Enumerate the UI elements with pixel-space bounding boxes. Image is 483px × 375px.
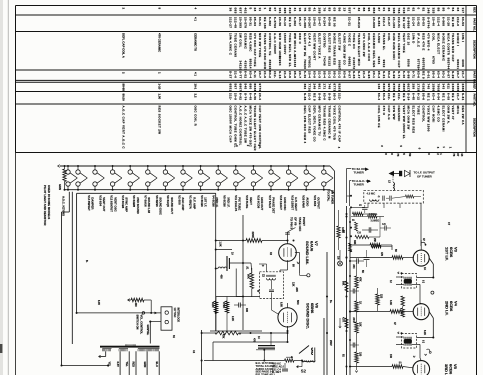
svg-text:CAP A.G: CAP A.G <box>387 106 391 121</box>
svg-text:20-9: 20-9 <box>288 71 292 78</box>
svg-text:95-2: 95-2 <box>377 71 381 78</box>
svg-text:A.G.C A.G.C TUBE 2W: A.G.C A.G.C TUBE 2W <box>243 106 247 144</box>
svg-text:20-47: 20-47 <box>318 17 322 26</box>
svg-text:650752: 650752 <box>422 58 426 70</box>
svg-text:V10 6S4: V10 6S4 <box>98 195 102 206</box>
svg-text:YOKE CO: YOKE CO <box>352 33 356 49</box>
svg-text:56: 56 <box>337 8 341 12</box>
pilot light resistor <box>63 165 66 191</box>
svg-text:20-56: 20-56 <box>278 17 282 26</box>
svg-text:2ND SOUND: 2ND SOUND <box>136 197 140 213</box>
svg-text:951343: 951343 <box>293 56 297 68</box>
svg-text:248: 248 <box>313 84 317 90</box>
svg-text:95: 95 <box>441 8 445 12</box>
component value labels <box>85 222 450 359</box>
interstage resistors <box>376 288 405 317</box>
svg-text:S-353: S-353 <box>377 17 381 27</box>
svg-text:4.5MC CO: 4.5MC CO <box>436 106 440 123</box>
svg-text:RE 9: RE 9 <box>451 93 455 101</box>
svg-text:1ST I.F.: 1ST I.F. <box>444 247 449 261</box>
svg-text:3.9MEG: 3.9MEG <box>371 220 380 223</box>
svg-text:16: 16 <box>298 8 302 12</box>
svg-text:V3 6CB6: V3 6CB6 <box>200 195 204 207</box>
svg-text:63-31: 63-31 <box>258 17 262 26</box>
svg-text:58122: 58122 <box>328 56 332 66</box>
bus decoupling extras <box>327 243 359 375</box>
svg-text:310: 310 <box>288 8 292 14</box>
wire to V7 grid <box>242 240 288 242</box>
on-off switch and choke <box>297 346 316 374</box>
svg-text:ELECT RES RES: ELECT RES RES <box>412 106 416 134</box>
svg-text:75: 75 <box>303 8 307 12</box>
svg-text:6-09: 6-09 <box>446 93 450 100</box>
svg-text:95-17: 95-17 <box>298 17 302 26</box>
V8 input network <box>210 297 262 335</box>
svg-text:TRANS CERAMIC M: TRANS CERAMIC M <box>328 106 332 139</box>
svg-text:SOUND DISC.: SOUND DISC. <box>305 303 310 329</box>
svg-text:470: 470 <box>380 252 383 257</box>
svg-text:CAP HORI: CAP HORI <box>432 106 436 123</box>
svg-text:TRANS RES 4.5MC C: TRANS RES 4.5MC C <box>323 106 327 142</box>
svg-text:98941: 98941 <box>456 59 460 69</box>
svg-text:YOKE COIL 470 TUB: YOKE COIL 470 TUB <box>332 106 336 141</box>
note: pilot light used in some models <box>43 185 51 226</box>
svg-text:RED: RED <box>132 362 136 368</box>
svg-text:13: 13 <box>342 8 346 12</box>
svg-text:3.3K: 3.3K <box>389 300 392 305</box>
svg-text:TAKE OFF: TAKE OFF <box>298 217 302 231</box>
svg-text:PART NO.: PART NO. <box>473 71 477 84</box>
svg-text:330: 330 <box>245 308 248 313</box>
svg-text:21-3: 21-3 <box>308 93 312 100</box>
svg-text:212-: 212- <box>273 71 277 78</box>
svg-text:ELECT 2W DE: ELECT 2W DE <box>303 33 307 57</box>
svg-text:20-40: 20-40 <box>432 17 436 26</box>
svg-text:CONTROL VE: CONTROL VE <box>268 33 272 56</box>
svg-text:OF V9: OF V9 <box>294 217 298 226</box>
svg-text:V12 6SN7GT: V12 6SN7GT <box>110 195 114 212</box>
svg-text:21-9: 21-9 <box>263 71 267 78</box>
wire detector return <box>323 318 325 375</box>
svg-text:PART NO.: PART NO. <box>473 94 477 107</box>
schematic section border <box>77 193 216 313</box>
AGC filter network <box>347 195 392 267</box>
svg-text:95-3: 95-3 <box>332 93 336 100</box>
svg-text:V2 6U8: V2 6U8 <box>177 195 181 205</box>
svg-text:87: 87 <box>377 8 381 12</box>
svg-text:MFD CERAMIC TU: MFD CERAMIC TU <box>318 106 322 137</box>
svg-text:2W COIL: 2W COIL <box>238 33 242 48</box>
svg-text:DAMPER: DAMPER <box>91 197 95 209</box>
screen resistor 2W <box>350 238 392 250</box>
svg-text:21-0: 21-0 <box>233 71 237 78</box>
svg-text:SYNC AMP: SYNC AMP <box>125 197 129 212</box>
svg-text:21-21: 21-21 <box>347 17 351 26</box>
svg-text:V1 6BQ7A: V1 6BQ7A <box>189 195 193 209</box>
svg-text:YEL: YEL <box>125 362 129 367</box>
svg-text:VOL. CONTROL: VOL. CONTROL <box>140 315 144 335</box>
svg-text:V15 5U4G: V15 5U4G <box>245 195 249 208</box>
svg-text:HOR OSC: HOR OSC <box>283 197 287 210</box>
svg-text:283: 283 <box>318 8 322 14</box>
B+ bus wires <box>346 206 352 375</box>
svg-text:26: 26 <box>387 8 391 12</box>
svg-text:50C: 50C <box>296 300 300 305</box>
svg-text:DESCRIPTION: DESCRIPTION <box>473 118 477 137</box>
quadrature coil Z2 <box>260 272 284 299</box>
svg-text:11: 11 <box>258 8 262 12</box>
svg-text:75: 75 <box>396 153 400 157</box>
svg-text:20-9: 20-9 <box>233 93 237 100</box>
svg-text:V18 12AU7: V18 12AU7 <box>279 195 283 210</box>
svg-text:400: 400 <box>219 275 222 280</box>
svg-text:20-7: 20-7 <box>298 71 302 78</box>
svg-text:20-4: 20-4 <box>258 93 262 100</box>
svg-text:VERT WW 1500V EL: VERT WW 1500V EL <box>402 106 406 140</box>
svg-text:TUBE: TUBE <box>417 106 421 115</box>
resistor 220K <box>246 232 262 243</box>
svg-text:21-2: 21-2 <box>337 71 341 78</box>
svg-text:63-10: 63-10 <box>283 17 287 26</box>
svg-text:V7 6AU6: V7 6AU6 <box>144 195 148 207</box>
svg-text:ELECT 2W: ELECT 2W <box>337 33 341 51</box>
svg-text:5: 5 <box>248 8 252 10</box>
tube V8 sound discriminator <box>272 299 320 330</box>
svg-text:95-93: 95-93 <box>253 17 257 26</box>
svg-text:A.G.C. KEYING: A.G.C. KEYING <box>62 196 66 216</box>
svg-text:6.3V: 6.3V <box>97 300 100 305</box>
svg-text:1: 1 <box>263 8 267 10</box>
svg-text:V21 6K6: V21 6K6 <box>313 195 317 206</box>
svg-text:CAP VERT 10% CONTROL: CAP VERT 10% CONTROL <box>258 106 262 150</box>
svg-text:1K: 1K <box>359 301 362 304</box>
svg-text:VERT OUT: VERT OUT <box>102 197 106 211</box>
svg-text:016272: 016272 <box>352 57 356 69</box>
svg-text:4008: 4008 <box>461 59 465 67</box>
svg-text:20-7: 20-7 <box>258 71 262 78</box>
svg-text:3RD I.F.: 3RD I.F. <box>444 364 449 375</box>
svg-text:4.5 MC: 4.5 MC <box>367 192 376 196</box>
svg-text:4 1: 4 1 <box>194 72 198 76</box>
grid resistor V4 <box>350 310 413 314</box>
svg-text:9972: 9972 <box>387 84 391 92</box>
svg-text:DEFL DEFL YOKE CO: DEFL DEFL YOKE CO <box>313 106 317 143</box>
svg-text:10% WW: 10% WW <box>392 106 396 120</box>
svg-text:MFD 2W YOKE: MFD 2W YOKE <box>258 33 262 58</box>
svg-text:V8 6BN6: V8 6BN6 <box>155 195 159 207</box>
svg-text:MICA ELECT: MICA ELECT <box>436 33 440 54</box>
svg-text:21-8: 21-8 <box>283 71 287 78</box>
svg-text:63-2: 63-2 <box>441 71 445 78</box>
svg-text:4.7K: 4.7K <box>342 317 345 322</box>
svg-text:10-1: 10-1 <box>194 84 198 90</box>
svg-text:20-383: 20-383 <box>238 17 242 28</box>
heater bus wires <box>58 165 335 194</box>
svg-text:SOUND LIM.: SOUND LIM. <box>305 241 310 265</box>
svg-text:INTERLOCK: INTERLOCK <box>176 308 179 323</box>
svg-text:10% 4.5MC C: 10% 4.5MC C <box>229 33 233 56</box>
svg-text:RE 9: RE 9 <box>313 93 317 101</box>
svg-text:RE 183: RE 183 <box>263 17 267 29</box>
svg-text:95-267: 95-267 <box>308 17 312 28</box>
svg-text:GRN: GRN <box>143 362 147 368</box>
svg-text:51: 51 <box>407 8 411 12</box>
svg-text:IF A.G.C: IF A.G.C <box>417 33 421 48</box>
svg-text:YEL: YEL <box>108 362 112 367</box>
svg-text:20-4: 20-4 <box>308 71 312 78</box>
svg-text:223: 223 <box>380 294 383 299</box>
svg-text:4.7MEG: 4.7MEG <box>369 213 378 216</box>
svg-text:54: 54 <box>451 8 455 12</box>
svg-text:250V: 250V <box>329 340 332 346</box>
svg-text:COIL: COIL <box>387 33 391 41</box>
svg-text:S-27: S-27 <box>229 71 233 79</box>
svg-text:21-28: 21-28 <box>446 17 450 26</box>
svg-text:117: 117 <box>461 8 465 14</box>
tube designation labels <box>87 195 321 215</box>
svg-text:083: 083 <box>233 8 237 14</box>
svg-text:6-46: 6-46 <box>402 71 406 78</box>
svg-text:RE 13: RE 13 <box>288 17 292 27</box>
svg-text:482: 482 <box>303 84 307 90</box>
svg-text:WW MICA A.G: WW MICA A.G <box>293 33 297 57</box>
grid resistor V5 <box>350 365 413 369</box>
svg-text:20-02: 20-02 <box>313 17 317 26</box>
svg-text:95-8: 95-8 <box>293 71 297 78</box>
svg-text:6-92: 6-92 <box>238 93 242 100</box>
svg-text:4 1: 4 1 <box>194 17 198 21</box>
svg-text:PART NO.: PART NO. <box>473 18 477 31</box>
svg-text:1718: 1718 <box>417 84 421 92</box>
svg-text:CONTROL 470 IF CAP: CONTROL 470 IF CAP <box>337 106 341 143</box>
svg-text:6627: 6627 <box>407 84 411 92</box>
svg-text:HORIZ I: HORIZ I <box>456 33 460 46</box>
svg-text:6807: 6807 <box>238 84 242 92</box>
svg-text:8755: 8755 <box>392 84 396 92</box>
svg-text:117 VAC: 117 VAC <box>173 308 176 318</box>
svg-text:HORIZ CERAMIC: HORIZ CERAMIC <box>441 33 445 62</box>
heater string tube filaments <box>66 165 333 191</box>
wire audio bus <box>201 330 203 375</box>
svg-text:ELECT RES: ELECT RES <box>328 33 332 53</box>
svg-text:6.8K: 6.8K <box>280 302 283 307</box>
svg-text:AUDIO: AUDIO <box>305 197 309 207</box>
svg-text:6-87: 6-87 <box>446 71 450 78</box>
svg-text:6-11: 6-11 <box>253 71 257 78</box>
svg-text:748: 748 <box>328 84 332 90</box>
svg-text:63-4: 63-4 <box>432 93 436 100</box>
svg-text:212-51: 212-51 <box>397 17 401 28</box>
svg-text:402: 402 <box>243 8 247 14</box>
svg-text:20-7: 20-7 <box>456 71 460 78</box>
svg-text:877694: 877694 <box>417 59 421 71</box>
svg-text:63-98: 63-98 <box>328 17 332 26</box>
svg-text:TUBE CERAMI: TUBE CERAMI <box>233 33 237 57</box>
svg-text:S-39: S-39 <box>328 93 332 101</box>
svg-text:41: 41 <box>293 8 297 12</box>
svg-text:47K: 47K <box>359 277 362 282</box>
svg-text:212-0: 212-0 <box>456 17 460 26</box>
svg-text:59: 59 <box>408 153 412 157</box>
svg-text:CERAMIC DEFL RES: CERAMIC DEFL RES <box>372 33 376 68</box>
svg-text:S-13: S-13 <box>278 71 282 79</box>
svg-text:S-06: S-06 <box>318 93 322 101</box>
svg-text:1.5K: 1.5K <box>219 242 222 247</box>
svg-text:38: 38 <box>229 8 233 12</box>
svg-text:63-2: 63-2 <box>268 71 272 78</box>
svg-text:RE 00: RE 00 <box>332 17 336 27</box>
svg-text:63-4: 63-4 <box>248 71 252 78</box>
wire grid feed V7 <box>216 240 246 242</box>
parts table dense entries <box>229 8 466 157</box>
svg-text:95-31: 95-31 <box>248 17 252 26</box>
svg-text:6-54: 6-54 <box>436 93 440 100</box>
svg-text:47K: 47K <box>222 334 225 339</box>
svg-text:861: 861 <box>318 84 322 90</box>
svg-text:SWITCH ON: SWITCH ON <box>136 315 140 330</box>
svg-text:SOUND LIM: SOUND LIM <box>147 197 151 213</box>
svg-text:ELECT YOKE A: ELECT YOKE A <box>318 33 322 59</box>
svg-text:A.G.C CAP VERT A.G.C C: A.G.C CAP VERT A.G.C C <box>122 106 126 150</box>
svg-text:8.2K: 8.2K <box>211 302 215 308</box>
svg-text:0262: 0262 <box>422 84 426 92</box>
svg-text:95-2: 95-2 <box>332 71 336 78</box>
svg-text:63-4: 63-4 <box>377 93 381 100</box>
svg-text:6-12: 6-12 <box>417 93 421 100</box>
svg-text:A.G.C 1500V: A.G.C 1500V <box>273 33 277 54</box>
svg-text:POINT: POINT <box>302 217 306 226</box>
svg-text:A.G.C HORIZ CONTROL: A.G.C HORIZ CONTROL <box>238 106 242 146</box>
svg-text:21-7: 21-7 <box>456 93 460 100</box>
svg-text:CERAMIC TU: CERAMIC TU <box>194 33 198 51</box>
svg-text:06562: 06562 <box>347 57 351 67</box>
svg-text:COIL A.G.C CON: COIL A.G.C CON <box>367 33 371 61</box>
capacitor 470 audio coupling <box>253 333 276 361</box>
svg-text:42: 42 <box>357 8 361 12</box>
svg-text:GRN/YEL: GRN/YEL <box>146 325 149 336</box>
svg-text:470 CERAMIC: 470 CERAMIC <box>158 33 162 53</box>
svg-text:V16 6CD6: V16 6CD6 <box>257 195 261 208</box>
svg-text:82: 82 <box>422 8 426 12</box>
svg-text:212-: 212- <box>397 93 401 100</box>
svg-text:YOKE WW 1500: YOKE WW 1500 <box>427 106 431 132</box>
svg-text:PHASE DET: PHASE DET <box>272 197 276 213</box>
svg-text:212-: 212- <box>337 93 341 100</box>
svg-text:S-47: S-47 <box>357 71 361 79</box>
svg-text:OSC 1500V MICA CAP: OSC 1500V MICA CAP <box>229 106 233 143</box>
svg-text:B-: B- <box>85 260 88 263</box>
svg-text:21-080: 21-080 <box>303 17 307 28</box>
svg-text:V9 6AQ5: V9 6AQ5 <box>166 195 170 207</box>
svg-text:V14 6W4GT: V14 6W4GT <box>87 195 91 211</box>
tube V4 2nd IF amplifier <box>413 301 458 320</box>
svg-text:7533: 7533 <box>397 84 401 92</box>
svg-text:289: 289 <box>412 84 416 90</box>
svg-text:TUNER: TUNER <box>354 182 365 186</box>
limiter input capacitor and coil <box>215 250 260 297</box>
power transformer T1 <box>100 344 160 351</box>
svg-text:96: 96 <box>367 8 371 12</box>
svg-text:OSC 10: OSC 10 <box>407 33 411 46</box>
svg-text:212-: 212- <box>229 93 233 100</box>
svg-text:CAP ELECT RES: CAP ELECT RES <box>308 106 312 134</box>
resistor 100K divider <box>337 210 344 250</box>
svg-text:6773: 6773 <box>332 84 336 92</box>
svg-text:6551: 6551 <box>229 84 233 92</box>
svg-text:95-4: 95-4 <box>323 71 327 78</box>
svg-text:63-6: 63-6 <box>342 71 346 78</box>
svg-text:S-88: S-88 <box>407 71 411 79</box>
wire to agc on tuner <box>350 179 372 206</box>
svg-text:BLU: BLU <box>155 362 159 367</box>
svg-text:6-71: 6-71 <box>412 71 416 78</box>
wire sound bus 2 <box>242 215 244 330</box>
svg-text:018: 018 <box>402 8 406 14</box>
svg-text:2ND I.F.: 2ND I.F. <box>444 301 449 315</box>
svg-text:150: 150 <box>359 352 362 357</box>
svg-text:9232: 9232 <box>377 57 381 65</box>
svg-text:6-45: 6-45 <box>412 93 416 100</box>
svg-text:S-9808: S-9808 <box>407 17 411 29</box>
svg-text:1-10: 1-10 <box>158 84 162 90</box>
svg-text:8263: 8263 <box>337 84 341 92</box>
svg-text:43: 43 <box>460 153 464 157</box>
V7 plate takeoff wires <box>285 217 310 277</box>
phono jack M1 <box>338 250 343 266</box>
section divider wire <box>334 196 336 375</box>
svg-text:S-21: S-21 <box>382 71 386 79</box>
tube V3 1st IF amplifier <box>413 240 458 266</box>
svg-text:RE 98: RE 98 <box>451 17 455 27</box>
svg-text:76320: 76320 <box>303 59 307 69</box>
svg-text:RES SOCKET 2W: RES SOCKET 2W <box>158 106 162 135</box>
svg-text:212-4: 212-4 <box>436 17 440 26</box>
svg-text:TUNER: TUNER <box>354 170 365 174</box>
svg-text:1ST I.F.: 1ST I.F. <box>204 197 208 207</box>
svg-text:VERT WW CONT: VERT WW CONT <box>313 33 317 61</box>
svg-text:R.F. AMP: R.F. AMP <box>192 197 196 209</box>
resistor R75 <box>128 298 152 313</box>
svg-text:V6 6AW8: V6 6AW8 <box>132 195 136 207</box>
svg-text:RES 470 E: RES 470 E <box>422 33 426 51</box>
svg-text:RE 8: RE 8 <box>402 93 406 101</box>
svg-text:S-03: S-03 <box>352 71 356 79</box>
svg-text:S-93: S-93 <box>367 71 371 79</box>
table header column labels <box>473 7 477 137</box>
svg-text:653: 653 <box>372 8 376 14</box>
svg-text:OF TUNER: OF TUNER <box>417 174 433 178</box>
svg-text:1M: 1M <box>337 256 340 259</box>
svg-text:REF.: REF. <box>473 7 477 13</box>
svg-text:23: 23 <box>253 8 257 12</box>
svg-text:41: 41 <box>313 8 317 12</box>
alignment network (dashed) <box>364 190 424 203</box>
svg-text:59: 59 <box>268 8 272 12</box>
svg-text:55: 55 <box>308 8 312 12</box>
svg-text:21-2: 21-2 <box>328 71 332 78</box>
wire to 6A on tuner <box>347 167 370 203</box>
svg-text:7710: 7710 <box>308 84 312 92</box>
svg-text:146: 146 <box>377 84 381 90</box>
svg-text:2C: 2C <box>359 205 362 207</box>
svg-text:V17 6AL5: V17 6AL5 <box>268 195 272 208</box>
svg-text:6783: 6783 <box>432 56 436 64</box>
resistor de-emphasis <box>202 331 289 335</box>
svg-text:COIL: COIL <box>432 33 436 41</box>
svg-text:B- RET: B- RET <box>272 370 281 374</box>
svg-text:63-53: 63-53 <box>461 17 465 26</box>
svg-text:6-52: 6-52 <box>243 71 247 78</box>
